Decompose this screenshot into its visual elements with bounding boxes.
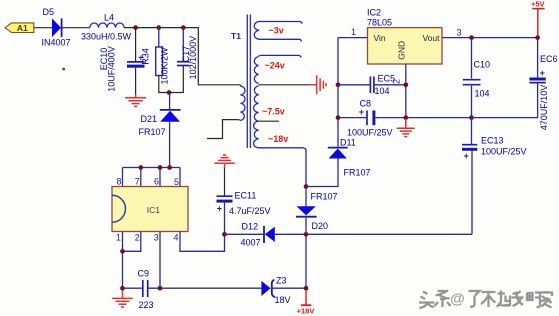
junction dot Vout/C10 — [469, 35, 474, 40]
junction dot Z3/+18V — [304, 286, 309, 291]
capacitor EC6 — [529, 54, 557, 130]
svg-text:C10: C10 — [474, 60, 491, 70]
svg-text:Vin: Vin — [374, 33, 386, 43]
svg-text:4.7uF/25V: 4.7uF/25V — [229, 206, 271, 216]
junction dot rail/R34 — [156, 25, 161, 30]
wire D11 top column — [337, 38, 339, 147]
svg-text:EC13: EC13 — [481, 136, 504, 146]
wire primary top tap curve — [239, 85, 241, 86]
capacitor EC11 — [217, 191, 271, 217]
wire pin 3 down — [159, 232, 161, 289]
wire C9 row right to Z3 — [148, 287, 261, 289]
wire junction to D21 — [169, 93, 171, 110]
svg-text:Z3: Z3 — [276, 276, 287, 286]
stray mark — [62, 68, 65, 71]
svg-text:FR107: FR107 — [344, 168, 371, 178]
svg-text:+: + — [359, 107, 364, 117]
wire tap ~24v top — [259, 55, 301, 57]
wire red symbol to EC11 — [224, 168, 226, 196]
wire pin 4 to EC11 junction — [180, 232, 225, 252]
wire D11 bottom link — [306, 159, 338, 187]
svg-text:102/1000V: 102/1000V — [188, 36, 198, 80]
capacitor C10 — [463, 60, 490, 99]
svg-text:Vout: Vout — [422, 33, 440, 43]
wire bottom rail corner up to EC13 — [471, 151, 473, 235]
capacitor EC13 — [462, 136, 527, 161]
svg-text:IC2: IC2 — [367, 8, 381, 18]
capacitor C8 — [347, 99, 393, 138]
wire red stub into earth — [309, 84, 316, 86]
svg-text:4007: 4007 — [241, 238, 261, 248]
svg-text:R34: R34 — [140, 48, 150, 65]
svg-text:4: 4 — [173, 233, 178, 243]
wire GND pin down — [405, 64, 407, 128]
wire tap ~24v bottom to earth — [259, 84, 309, 86]
ground at IC1 pin1 — [112, 290, 133, 307]
svg-text:5: 5 — [174, 177, 179, 187]
wire R34 bottom to junction — [159, 76, 169, 93]
earth symbol (rotated) on ~24v tap — [317, 75, 326, 94]
wire pin 2 to pin 1 — [123, 232, 141, 252]
diode D20 — [296, 192, 338, 232]
svg-text:+: + — [217, 203, 222, 213]
ground EC10 — [125, 94, 146, 106]
junction dot D21 — [167, 165, 172, 170]
svg-text:104: 104 — [475, 89, 490, 99]
svg-text:+5V: +5V — [531, 0, 545, 9]
wire EC5 row — [338, 84, 370, 86]
wire C17 bottom to junction — [169, 66, 183, 93]
svg-text:L4: L4 — [104, 13, 114, 23]
svg-text:D12: D12 — [242, 222, 259, 232]
red top symbol above EC11 (inverted earth) — [214, 155, 234, 168]
svg-text:3: 3 — [457, 28, 462, 38]
junction dot pin1/pin2 — [120, 249, 125, 254]
svg-text:2: 2 — [135, 233, 140, 243]
svg-text:78L05: 78L05 — [367, 18, 392, 28]
wire C9 row left — [123, 287, 143, 289]
wire pin 8 stub — [122, 168, 124, 187]
svg-text:@: @ — [450, 291, 465, 308]
capacitor C9 — [138, 269, 154, 311]
wire +18V junction up to rail — [305, 234, 307, 288]
junction dot EC5/GND — [403, 82, 408, 87]
svg-text:D20: D20 — [312, 221, 329, 231]
inductor L4 — [81, 13, 132, 42]
resistor R34 — [140, 47, 169, 85]
junction dot D20 bottom — [304, 232, 309, 237]
wire pin 3 Vout to +5V junction — [442, 37, 538, 39]
junction dot C10/EC13 row — [469, 115, 474, 120]
svg-text:EC6: EC6 — [540, 54, 558, 64]
diode D11 — [328, 138, 371, 178]
wire pin 5 stub — [179, 168, 181, 187]
svg-text:+: + — [540, 68, 545, 78]
IC IC1 — [112, 187, 188, 232]
svg-text:+18V: +18V — [297, 306, 315, 315]
junction dot D11 bottom — [304, 184, 309, 189]
diode D5 — [42, 7, 71, 48]
wire primary bottom tap (stepped stub) — [207, 120, 240, 139]
svg-text:223: 223 — [139, 300, 154, 310]
wire EC13 column top — [471, 118, 473, 144]
wire D20 bottom to rail — [305, 218, 307, 235]
svg-text:104: 104 — [375, 86, 390, 96]
junction dot EC5 row left — [336, 82, 341, 87]
transformer secondary ~24v winding — [254, 57, 258, 84]
node A1 input port — [5, 23, 34, 33]
wire EC10 to ground — [135, 68, 137, 94]
svg-text:~18v: ~18v — [268, 134, 288, 144]
svg-text:~7.5v: ~7.5v — [262, 107, 285, 117]
wire EC11 down to junction — [224, 203, 226, 235]
wire D5 to L4 — [63, 27, 91, 29]
svg-text:D5: D5 — [43, 7, 55, 17]
svg-text:D11: D11 — [340, 138, 356, 148]
wire pin 7 stub — [140, 168, 142, 187]
junction dot +5V/EC6 — [535, 35, 540, 40]
wire R34 drop — [158, 28, 160, 47]
zener Z3 — [261, 276, 290, 306]
svg-text:IC1: IC1 — [147, 205, 161, 215]
svg-text:6: 6 — [154, 177, 159, 187]
svg-text:1: 1 — [116, 233, 121, 243]
transformer secondary lower winding (~7.5v/~18v) — [254, 86, 259, 148]
junction dot EC11/pin4/D12 — [222, 232, 227, 237]
wire junction to D12 — [225, 233, 264, 235]
wire pin 1 Vin — [338, 37, 368, 39]
junction dot pin7 — [138, 165, 143, 170]
svg-text:1: 1 — [351, 27, 356, 37]
svg-text:100UF/25V: 100UF/25V — [481, 147, 527, 157]
junction dot C9 left / ground — [120, 286, 125, 291]
svg-text:330uH/0.5W: 330uH/0.5W — [81, 32, 132, 42]
wire C8 row — [338, 117, 366, 119]
svg-text:A1: A1 — [17, 23, 28, 33]
svg-text:C9: C9 — [138, 269, 150, 279]
diode D21 — [139, 110, 181, 137]
capacitor EC10 — [99, 46, 144, 92]
transformer core — [247, 15, 250, 149]
svg-text:470UF/10V: 470UF/10V — [539, 85, 549, 131]
svg-text:+: + — [464, 151, 469, 161]
watermark 头条 @了不起我的家 — [450, 291, 466, 309]
diode D12 — [241, 222, 275, 248]
capacitor C17 — [177, 36, 198, 80]
wire IC1 top pins rail — [123, 167, 181, 169]
wire C17 drop — [182, 28, 184, 61]
svg-text:IN4007: IN4007 — [42, 38, 71, 48]
junction dot rail/C17 — [181, 25, 186, 30]
wire EC10 drop — [135, 28, 137, 61]
svg-text:~3v: ~3v — [269, 26, 284, 36]
svg-text:100UF/25V: 100UF/25V — [347, 128, 393, 138]
junction dot R34/C17/D21 — [167, 90, 172, 95]
wire pin 1 down — [122, 232, 124, 289]
wire Z3 to +18V junction — [272, 287, 306, 289]
svg-text:EC5: EC5 — [378, 74, 396, 84]
ground IC2 GND — [397, 119, 415, 137]
wire tap ~3v top — [259, 22, 302, 24]
svg-text:D21: D21 — [141, 114, 158, 124]
capacitor EC5 — [370, 74, 395, 97]
svg-text:~24v: ~24v — [265, 60, 285, 70]
power +18V — [297, 290, 315, 315]
svg-text:GND: GND — [396, 41, 406, 60]
wire EC6 column — [537, 38, 539, 78]
junction dot C8/GND — [403, 115, 408, 120]
wire tap ~3v bottom — [259, 39, 302, 41]
wire A1 to D5 — [34, 27, 52, 29]
svg-text:T1: T1 — [231, 31, 241, 41]
svg-text:10UF/400V: 10UF/400V — [107, 46, 117, 92]
junction dot pin6 — [158, 165, 163, 170]
svg-text:18V: 18V — [275, 295, 291, 305]
svg-text:FR107: FR107 — [311, 192, 338, 202]
svg-text:EC11: EC11 — [235, 191, 257, 201]
svg-text:8: 8 — [116, 177, 121, 187]
junction dot pin3/C9 — [158, 286, 163, 291]
transformer primary winding — [240, 86, 245, 120]
wire D12 to D20 junction (bottom rail) — [275, 233, 472, 235]
svg-text:100K/2W: 100K/2W — [160, 47, 170, 85]
voltage regulator IC2 78L05 — [367, 8, 442, 65]
junction dot C8 row left — [336, 115, 341, 120]
wire top rail L4 to corner — [124, 28, 240, 85]
wire D20 top to transformer — [259, 148, 306, 206]
power +5V — [531, 0, 545, 38]
transformer secondary ~3v winding — [254, 22, 259, 40]
junction dot rail/EC10 — [133, 25, 138, 30]
wire stub tap ~7.5v — [259, 120, 279, 122]
wire D21 to IC1 pins rail — [169, 122, 171, 168]
svg-text:FR107: FR107 — [139, 127, 166, 137]
svg-text:7: 7 — [135, 177, 140, 187]
wire pin 6 stub — [159, 168, 161, 187]
svg-text:3: 3 — [154, 233, 159, 243]
wire C10 column — [471, 38, 473, 79]
